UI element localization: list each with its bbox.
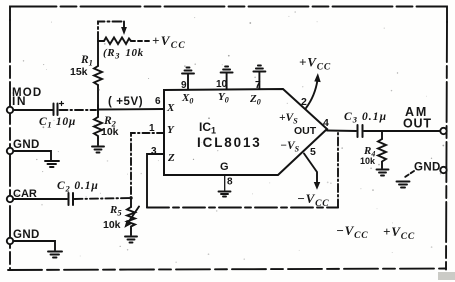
capacitor C2: [57, 180, 99, 205]
terminal GND1: [7, 139, 40, 154]
wire C1 to node: [60, 109, 97, 111]
junction node Y/CAR: [129, 196, 132, 199]
ground under R4: [377, 170, 389, 176]
feedback wire Z to OUT: [147, 131, 338, 208]
label G / pin 8: [220, 161, 233, 191]
multiplier IC1 ICL8013 body: [164, 89, 327, 175]
svg-text:5: 5: [310, 146, 316, 158]
pin 2 wire to +Vcc: [301, 75, 320, 109]
wire R3 to +Vcc: [131, 40, 150, 42]
ground under GND2: [13, 241, 55, 250]
svg-text:(R3 10k: (R3 10k: [103, 47, 144, 61]
potentiometer R3: [98, 22, 144, 61]
svg-text:2: 2: [301, 96, 307, 108]
svg-text:IN: IN: [12, 94, 27, 108]
wire Y pin to R5 node: [131, 133, 164, 198]
ground under pin 8: [219, 192, 231, 197]
svg-text:ICL8013: ICL8013: [197, 135, 262, 150]
svg-text:15k: 15k: [70, 66, 88, 78]
terminal GND3: [414, 162, 447, 174]
resistor R1: [70, 41, 102, 110]
svg-text:10k: 10k: [360, 156, 376, 166]
terminal AM OUT: [403, 105, 447, 134]
svg-text:C3 0.1µ: C3 0.1µ: [344, 111, 387, 125]
pin 5 wire to -Vcc: [304, 146, 320, 189]
svg-text:G: G: [220, 161, 229, 173]
ground under R2: [92, 147, 104, 153]
svg-text:C1 10µ: C1 10µ: [39, 116, 76, 130]
svg-text:GND: GND: [414, 162, 441, 174]
ground under R5: [125, 237, 137, 243]
node junction R1/R2: [97, 105, 99, 114]
svg-text:C2 0.1µ: C2 0.1µ: [57, 180, 99, 194]
terminal CAR: [7, 188, 37, 202]
resistor R2: [94, 110, 119, 145]
resistor R4: [360, 131, 386, 168]
svg-text:( +5V): ( +5V): [108, 96, 143, 108]
svg-text:9: 9: [181, 80, 187, 91]
pin 9 + ground: [181, 68, 194, 92]
pin 7 + ground: [253, 66, 265, 92]
wire C3 to AM OUT: [364, 130, 440, 132]
ground under GND3: [397, 182, 410, 188]
svg-text:10k: 10k: [103, 219, 121, 231]
svg-text:4: 4: [323, 117, 329, 129]
svg-text:8: 8: [227, 177, 233, 188]
corner smudge: [438, 272, 455, 280]
wire MOD IN to C1: [13, 109, 53, 111]
wire node to pin 6 (+5V): [98, 108, 164, 111]
wire OUT pin 4: [323, 117, 356, 131]
svg-text:OUT: OUT: [403, 117, 432, 131]
svg-text:GND: GND: [13, 139, 40, 151]
svg-text:Z: Z: [167, 152, 175, 164]
terminal GND2: [7, 229, 40, 244]
svg-text:GND: GND: [13, 229, 40, 241]
ground under GND1: [13, 151, 51, 160]
potentiometer R5: [103, 198, 139, 235]
svg-text:6: 6: [155, 96, 161, 107]
pin 10 + ground: [216, 67, 233, 91]
capacitor C3: [344, 111, 387, 137]
svg-text:OUT: OUT: [294, 125, 317, 137]
wire GND3 to ground: [405, 171, 414, 177]
capacitor C1: [39, 102, 76, 130]
svg-text:10k: 10k: [101, 126, 119, 138]
wire C2 to node R5: [75, 198, 132, 199]
svg-text:1: 1: [149, 123, 155, 134]
svg-text:3: 3: [151, 146, 157, 157]
wire CAR to C2: [13, 198, 67, 200]
terminal MOD IN: [7, 87, 43, 113]
svg-text:X: X: [166, 102, 175, 114]
